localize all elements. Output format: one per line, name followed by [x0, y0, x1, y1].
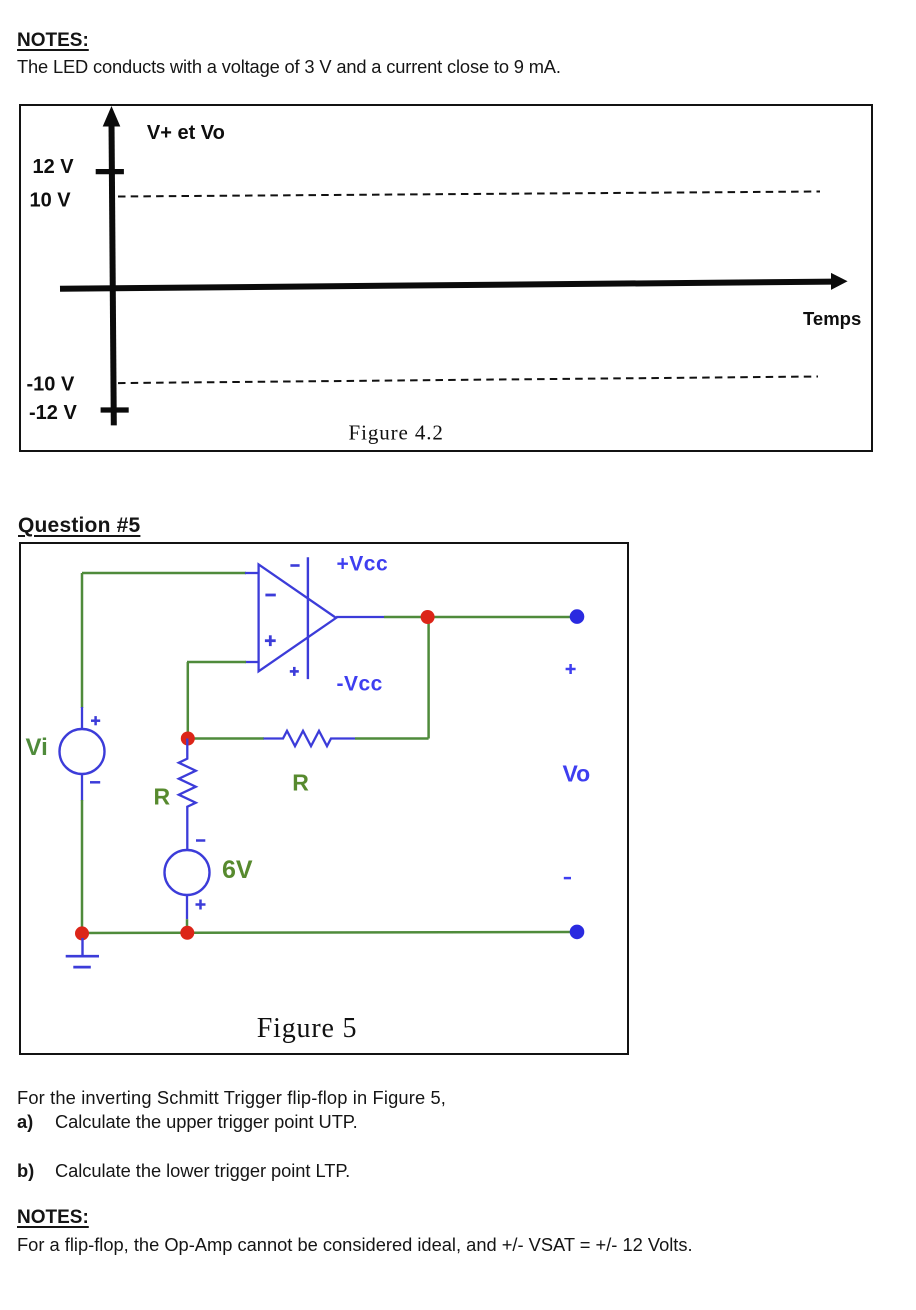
resistor R feedback (horizontal)	[264, 731, 356, 746]
wire Vi to ground node	[81, 800, 84, 933]
tick -12V	[101, 407, 129, 412]
svg-text:Vo: Vo	[563, 761, 591, 787]
item a)	[17, 1113, 358, 1131]
item b)	[17, 1162, 350, 1180]
minus sign Vi	[90, 781, 100, 784]
paragraph question intro	[17, 1089, 446, 1107]
source 6V circle	[165, 850, 210, 895]
wire stub Vi top	[81, 707, 83, 730]
wire op-amp output blue	[336, 616, 384, 618]
plus sign noninverting input	[265, 635, 276, 646]
wire bottom rail	[82, 932, 571, 933]
wire stub noninverting input	[245, 661, 259, 663]
label plus terminal	[566, 664, 576, 674]
horizontal axis arrowhead	[831, 273, 848, 290]
wire stub 6V bottom	[186, 895, 188, 919]
terminal Vo+ (blue)	[570, 609, 585, 624]
svg-text:6V: 6V	[222, 856, 253, 884]
svg-text:-Vcc: -Vcc	[337, 672, 383, 695]
wire feedback horizontal green left	[188, 737, 264, 740]
svg-text:R: R	[292, 770, 309, 796]
wire left vertical from Vi	[81, 573, 84, 708]
ground bar long	[66, 955, 99, 958]
svg-text:Vi: Vi	[26, 734, 48, 761]
wire noninverting vertical to feedback node	[187, 662, 190, 739]
heading NOTES: (top)	[17, 31, 89, 50]
plus sign 6V	[196, 900, 206, 910]
node feedback (red)	[181, 732, 195, 746]
minus sign +Vcc supply	[290, 564, 299, 567]
minus sign 6V	[196, 839, 205, 842]
paragraph VSAT note	[17, 1236, 693, 1254]
ground stub	[81, 938, 83, 956]
terminal Vo- (blue)	[570, 925, 585, 940]
label minus terminal	[564, 877, 571, 880]
svg-text:R: R	[154, 783, 171, 809]
ground bar short	[73, 966, 91, 969]
wire stub inverting input	[245, 572, 259, 574]
heading NOTES: (bottom)	[17, 1208, 89, 1227]
figure 4.2 frame	[19, 104, 873, 452]
svg-text:Figure 5: Figure 5	[257, 1013, 358, 1044]
wire feedback vertical	[427, 617, 430, 739]
minus sign inverting input	[265, 594, 275, 597]
plus sign Vi	[91, 716, 100, 725]
heading Question #5	[18, 515, 140, 536]
op-amp power rail	[307, 557, 309, 679]
dashed line +10V	[118, 192, 820, 197]
plus sign -Vcc supply	[290, 667, 299, 676]
node bottom middle (red)	[180, 926, 194, 940]
tick 12V	[96, 169, 124, 174]
wire 6V to bottom rail	[186, 919, 189, 933]
source Vi circle	[60, 729, 105, 774]
figure 5 frame	[19, 542, 629, 1055]
svg-text:+Vcc: +Vcc	[337, 552, 389, 575]
resistor R to 6V (vertical zigzag)	[179, 739, 196, 851]
op-amp U1 triangle	[259, 564, 337, 671]
wire stub Vi bottom	[81, 774, 83, 802]
dashed line -10V	[118, 377, 818, 384]
horizontal axis (Temps)	[60, 282, 833, 289]
wire noninverting horizontal	[187, 661, 246, 664]
wire feedback horizontal green right	[355, 737, 429, 740]
node bottom left (red)	[75, 926, 89, 940]
vertical axis (V+ et Vo)	[112, 122, 114, 425]
wire inverting input horizontal	[82, 572, 246, 575]
wire output green to terminal	[384, 616, 571, 619]
vertical axis arrowhead	[103, 106, 121, 127]
node output (red)	[421, 610, 435, 624]
paragraph LED note	[17, 58, 561, 76]
